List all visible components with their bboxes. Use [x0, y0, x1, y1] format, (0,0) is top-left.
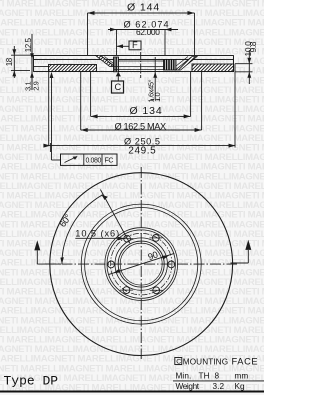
bolt hole tick marks: [120, 238, 163, 290]
datum F leader: [117, 45, 129, 47]
datum F box: [129, 41, 141, 50]
circle R36.4: [105, 228, 178, 301]
dimension Ø144 arrows: [88, 11, 195, 15]
svg-text:Ø 162.5 MAX: Ø 162.5 MAX: [115, 121, 167, 131]
dimension 90 bolt circle: [109, 253, 175, 274]
svg-text:10.5 (x6): 10.5 (x6): [75, 229, 120, 239]
datum C box: [112, 81, 124, 93]
svg-text:Type DP: Type DP: [4, 374, 59, 389]
hat wall left: [114, 57, 119, 72]
svg-text:9.8: 9.8: [248, 41, 258, 52]
disc section left edge: [33, 55, 35, 72]
disc section right edge: [233, 55, 235, 72]
dimension Ø162.5 MAX: [81, 72, 202, 130]
disc section bottom line: [34, 71, 234, 73]
svg-text:FACE: FACE: [232, 356, 259, 366]
svg-text:Weight: Weight: [176, 382, 200, 391]
svg-text:Min.: Min.: [176, 372, 192, 381]
bottom rule: [0, 391, 264, 393]
dimension Ø250.5/249.5: [44, 64, 236, 152]
friction band hatch left: [49, 65, 97, 72]
circle R34.2: [107, 230, 175, 298]
svg-text:0.080: 0.080: [86, 158, 102, 165]
dimension 10.0/9.8 arrows: [247, 58, 251, 78]
svg-text:18: 18: [5, 57, 14, 66]
section centerline: [140, 52, 142, 78]
svg-text:Ø 134: Ø 134: [130, 105, 163, 117]
datum C note box: [175, 358, 182, 365]
svg-text:Kg: Kg: [235, 382, 246, 391]
svg-text:249.5: 249.5: [128, 145, 156, 156]
dimension 18 line: [11, 46, 34, 78]
circle R60: [81, 204, 201, 324]
disc section line L2: [34, 59, 234, 61]
dimension 12.5 arrows: [30, 53, 34, 78]
outer rim circle: [50, 173, 233, 356]
svg-text:12.5: 12.5: [24, 37, 33, 52]
hat cone right: [176, 57, 198, 71]
60 degree radial line: [100, 190, 129, 244]
dimension Ø134: [91, 72, 191, 117]
rim leader right: [245, 240, 251, 250]
disc section top line L1: [34, 55, 234, 57]
hub bore lines: [110, 61, 177, 70]
svg-text:Ø 144: Ø 144: [127, 2, 160, 14]
svg-text:62.000: 62.000: [136, 27, 160, 37]
svg-text:C: C: [115, 82, 122, 92]
dimension 18 arrows: [12, 49, 16, 76]
svg-text:F: F: [132, 40, 138, 50]
extension arrow 2.9/3.1: [50, 72, 54, 78]
svg-text:MOUNTING: MOUNTING: [183, 357, 228, 366]
dimension Ø144 line: [88, 13, 195, 55]
svg-text:2.9: 2.9: [32, 81, 41, 90]
dimension Ø62.074/62.000 line: [108, 30, 178, 56]
svg-text:TH: TH: [199, 372, 210, 381]
vertical centerline: [140, 167, 142, 359]
dimension 1.0 chamfer line: [154, 57, 156, 100]
60 arc arrowheads: [102, 195, 108, 200]
datum C triangle: [116, 72, 121, 77]
bolt circle dashed: [110, 233, 172, 295]
horizontal centerline: [45, 263, 237, 265]
rim leader left: [34, 240, 40, 250]
svg-text:3.2: 3.2: [213, 382, 225, 391]
circle R56.6: [85, 208, 198, 321]
friction band hatch right: [192, 64, 234, 72]
disc section left stub line: [34, 66, 49, 68]
dimension 12.5 line: [31, 34, 33, 90]
svg-text:FC: FC: [105, 158, 114, 165]
dimension Ø62 arrows: [110, 28, 172, 32]
bore circle inner: [120, 243, 162, 285]
hat cone left: [96, 55, 119, 69]
bolt holes x6: [108, 235, 175, 294]
svg-text:mm: mm: [235, 372, 249, 381]
bore circle: [118, 241, 164, 287]
dimension 10.0/9.8 right: [235, 50, 253, 84]
svg-text:1.0: 1.0: [153, 93, 162, 102]
feature control frame runout 0.080 FC: [52, 146, 118, 166]
rule above weight: [173, 380, 264, 382]
svg-text:C: C: [176, 359, 181, 366]
svg-text:8: 8: [215, 372, 220, 381]
60 degree arc: [62, 195, 103, 264]
hat wall right: [164, 60, 177, 71]
bore circle outer: [115, 238, 167, 290]
